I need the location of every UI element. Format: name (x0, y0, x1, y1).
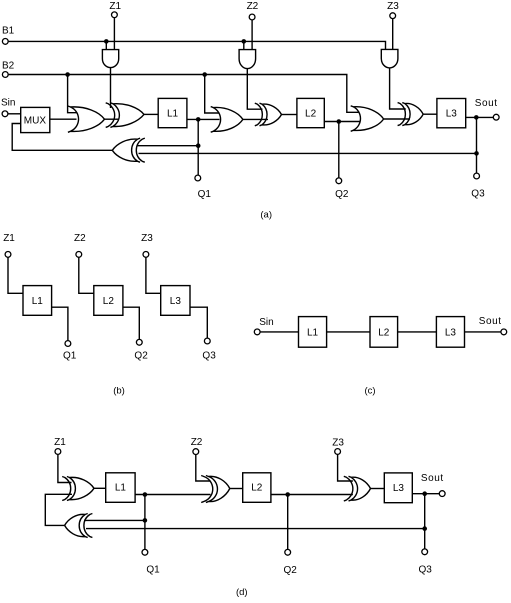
terminal B2 (2, 72, 8, 78)
terminal Z1d (55, 449, 61, 455)
wire Q1-down (197, 119, 199, 175)
svg-text:Z3: Z3 (141, 233, 153, 244)
wire MUX-feedback-in (12, 124, 112, 151)
xor-gate X3 (398, 103, 424, 126)
xor-gate XFd (65, 514, 93, 538)
junction Q1d-feedback (143, 518, 148, 523)
svg-text:L3: L3 (446, 109, 458, 120)
label Q2 (335, 189, 349, 200)
junction B2-OR2 (202, 72, 219, 113)
wire L3-out (466, 116, 494, 118)
svg-text:Sout: Sout (421, 473, 444, 484)
latch L3c (436, 317, 464, 348)
svg-text:L3: L3 (445, 328, 457, 339)
latch L1b (23, 286, 52, 316)
label Sin (1, 98, 15, 109)
latch L2d (243, 473, 271, 503)
xor-gate X2 (255, 103, 282, 126)
svg-text:Q3: Q3 (471, 189, 485, 200)
latch L3b (161, 286, 190, 316)
label (a) (260, 209, 272, 220)
svg-text:L2: L2 (251, 483, 263, 494)
junction Q2d-node (285, 492, 290, 497)
wire X1d-L1d (94, 487, 106, 489)
wire Q3-down (476, 117, 478, 173)
latch L3d (384, 473, 412, 503)
label L2c (378, 328, 390, 339)
wire L2-out (324, 121, 360, 123)
wire L3c-Sout (465, 331, 501, 333)
label L2 (305, 109, 317, 120)
wire L2c-L3c (398, 331, 437, 333)
terminal B1 (2, 39, 8, 45)
terminal Z3b (143, 252, 149, 258)
or-gate G2 (211, 107, 243, 133)
mux M1 (21, 107, 50, 132)
xor-gate X2d (201, 476, 230, 503)
wire MUX-out (50, 118, 77, 120)
wire L2d-out (271, 494, 353, 496)
svg-text:Z1: Z1 (3, 233, 15, 244)
junction Sout-d-node (422, 491, 427, 496)
label Q2d (284, 565, 298, 576)
label L3c (445, 328, 457, 339)
svg-text:(c): (c) (364, 386, 375, 397)
wire Sin-MUX (8, 113, 21, 115)
wire G3-out (384, 118, 410, 120)
terminal Sout-c (501, 329, 507, 335)
label Q3 (471, 189, 485, 200)
xor-gate X1 (106, 103, 144, 128)
svg-text:L3: L3 (393, 483, 405, 494)
terminal Sin (2, 111, 8, 117)
terminal Z3d (335, 449, 341, 455)
and-gate A1 (102, 50, 118, 68)
svg-text:Q2: Q2 (335, 189, 349, 200)
svg-text:Z2: Z2 (247, 1, 259, 12)
and-gate A3 (381, 49, 398, 68)
terminal Z2d (193, 449, 199, 455)
latch L2c (370, 317, 398, 348)
wire X1-L1 (144, 113, 158, 115)
label (c) (364, 386, 375, 397)
terminal Q1 (195, 175, 201, 181)
label L2b (103, 296, 115, 307)
label MUX (24, 115, 47, 126)
label Z1 (109, 1, 121, 12)
wire L3d-out (412, 493, 439, 495)
junction Q1-node (196, 117, 201, 122)
terminal Q3d (422, 549, 428, 555)
svg-text:Q2: Q2 (134, 351, 148, 362)
terminal Sout (493, 114, 499, 120)
label L1b (32, 296, 44, 307)
wire XFd-in-lower (86, 528, 425, 530)
label Z1d (54, 437, 66, 448)
terminal Sin-c (254, 329, 260, 335)
svg-text:Sin: Sin (259, 317, 273, 328)
wire XFd-out (45, 494, 72, 525)
svg-text:L1: L1 (167, 109, 179, 120)
wire Z2d-in (196, 455, 211, 481)
terminal Z3 (390, 13, 396, 50)
terminal Q2 (336, 178, 342, 184)
xor-gate X1d (62, 477, 94, 501)
svg-text:L2: L2 (378, 328, 390, 339)
label L3 (446, 109, 458, 120)
terminal Q2d (285, 549, 291, 555)
svg-text:Sin: Sin (1, 98, 15, 109)
wire Z3d-in (338, 455, 353, 482)
and-gate A2 (239, 50, 256, 69)
svg-text:Z1: Z1 (54, 437, 66, 448)
xor-gate X3d (344, 476, 371, 501)
label Q3d (419, 565, 433, 576)
wire Q1d-down (144, 495, 146, 550)
wire X3d-L3d (371, 488, 385, 490)
wire Z3b-in (146, 257, 161, 293)
label L1d (115, 483, 127, 494)
svg-text:(b): (b) (113, 385, 125, 396)
label L3d (393, 483, 405, 494)
label Z3b (141, 233, 153, 244)
svg-text:Z1: Z1 (109, 1, 121, 12)
wire X2-L2 (282, 114, 297, 116)
svg-text:(d): (d) (236, 587, 248, 598)
svg-text:Q3: Q3 (202, 351, 216, 362)
svg-text:MUX: MUX (24, 115, 47, 126)
junction B1-AND2 (242, 39, 247, 49)
wire Z2b-in (79, 257, 94, 293)
svg-text:L3: L3 (170, 296, 182, 307)
wire Z1b-in (8, 257, 23, 293)
label Q1d (146, 565, 160, 576)
terminal Q1b (65, 341, 71, 347)
wire G2-out (243, 118, 268, 120)
label B1 (2, 26, 15, 37)
svg-text:Q1: Q1 (198, 189, 212, 200)
terminal Q1d (142, 549, 148, 555)
latch L3 (437, 99, 466, 128)
svg-text:B1: B1 (2, 26, 15, 37)
label Z2b (74, 233, 86, 244)
label Z3d (332, 438, 344, 449)
svg-text:Q2: Q2 (284, 565, 298, 576)
wire Q2b-out (123, 307, 139, 339)
junction Q1-feedback (196, 143, 201, 148)
svg-text:Q1: Q1 (146, 565, 160, 576)
wire B2 bus (9, 75, 360, 113)
svg-text:L2: L2 (103, 296, 115, 307)
svg-text:Z2: Z2 (191, 437, 203, 448)
or-gate G1 (68, 106, 105, 132)
svg-text:(a): (a) (260, 209, 272, 220)
junction Q2-node (337, 119, 342, 124)
wire B1 bus (9, 41, 386, 49)
wire Q2d-down (287, 495, 289, 550)
wire XFd-in-upper (84, 519, 145, 521)
wire G1-out (105, 118, 120, 120)
terminal Q2b (136, 339, 142, 345)
label Z1b (3, 233, 15, 244)
junction Q3d-feedback (422, 526, 427, 531)
latch L1d (106, 473, 135, 503)
junction Sout-node (474, 115, 479, 120)
wire X2d-L2d (230, 488, 243, 490)
svg-text:B2: B2 (2, 61, 15, 72)
junction Q3-feedback (474, 151, 479, 156)
wire L1-out (187, 118, 220, 120)
wire L1d-out (135, 494, 210, 496)
wire A2-out (247, 69, 262, 110)
wire A3-out (390, 68, 406, 109)
label Q1 (198, 189, 212, 200)
terminal Z2b (76, 252, 82, 258)
wire A1-out (110, 68, 112, 108)
svg-text:Q3: Q3 (419, 565, 433, 576)
label Q2b (134, 351, 148, 362)
wire XF-in-lower (139, 152, 477, 154)
label Z3 (387, 1, 399, 12)
label Q1b (63, 351, 77, 362)
label B2 (2, 61, 15, 72)
or-gate G3 (351, 106, 384, 132)
label Sout (475, 98, 498, 109)
junction Q1d-node (143, 492, 148, 497)
label Sout-d (421, 473, 444, 484)
svg-text:L1: L1 (115, 483, 127, 494)
label Z2d (191, 437, 203, 448)
wire Sin-L1c (260, 331, 298, 333)
label L3b (170, 296, 182, 307)
terminal Z1 (112, 12, 118, 50)
label Q3b (202, 351, 216, 362)
svg-text:Z3: Z3 (387, 1, 399, 12)
svg-text:L1: L1 (307, 328, 319, 339)
wire Q1b-out (52, 307, 68, 340)
terminal Sout-d (439, 491, 445, 497)
junction B2-OR1 (65, 72, 77, 113)
svg-text:Sout: Sout (475, 98, 498, 109)
label (d) (236, 587, 248, 598)
label Sin-c (259, 317, 273, 328)
wire L1c-L2c (327, 331, 370, 333)
svg-text:Z3: Z3 (332, 438, 344, 449)
label L2d (251, 483, 263, 494)
latch L1 (158, 98, 187, 127)
svg-text:L2: L2 (305, 109, 317, 120)
wire Z1d-in (58, 455, 72, 483)
svg-text:L1: L1 (32, 296, 44, 307)
junction B1-AND1 (104, 39, 109, 49)
terminal Z2 (249, 14, 255, 50)
label L1 (167, 109, 179, 120)
terminal Q3b (204, 338, 210, 344)
latch L1c (299, 317, 327, 348)
terminal Z1b (5, 252, 11, 258)
svg-text:Q1: Q1 (63, 351, 77, 362)
latch L2b (94, 286, 123, 316)
svg-text:Z2: Z2 (74, 233, 86, 244)
label Sout-c (479, 316, 502, 327)
svg-text:Sout: Sout (479, 316, 502, 327)
wire Q3d-down (424, 494, 426, 549)
wire Q2-down (338, 122, 340, 178)
terminal Q3 (474, 173, 480, 179)
wire XF-in-upper (137, 145, 199, 147)
label Z2 (247, 1, 259, 12)
label (b) (113, 385, 125, 396)
label L1c (307, 328, 319, 339)
latch L2 (297, 98, 324, 127)
wire Q3b-out (190, 307, 207, 338)
wire X3-L3 (423, 113, 437, 115)
xor-gate XF (112, 138, 145, 162)
